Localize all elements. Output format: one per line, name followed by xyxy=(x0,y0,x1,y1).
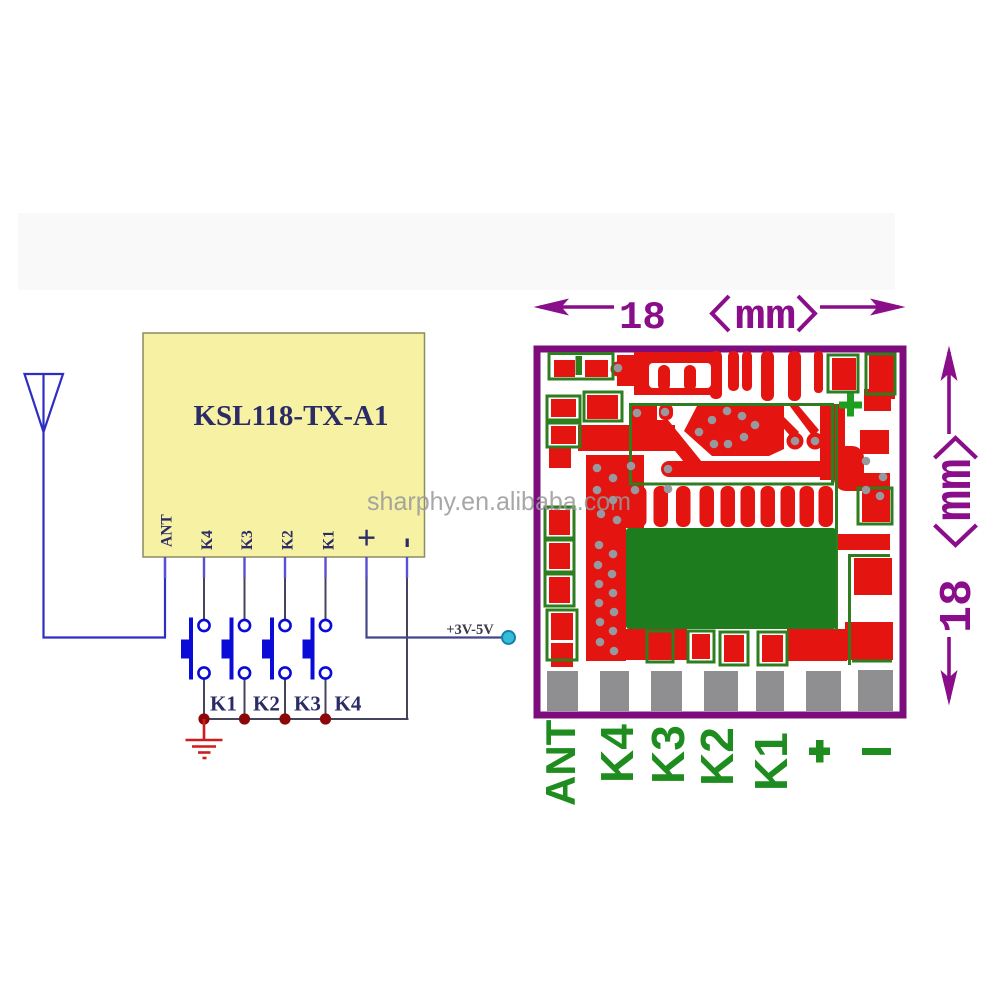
svg-text:+3V-5V: +3V-5V xyxy=(446,622,494,638)
svg-text:K1: K1 xyxy=(745,732,797,791)
svg-text:K3: K3 xyxy=(294,692,321,716)
svg-text:18: 18 xyxy=(933,579,984,633)
svg-text:KSL118-TX-A1: KSL118-TX-A1 xyxy=(194,400,389,432)
svg-text:K2: K2 xyxy=(280,530,297,550)
svg-text:K1: K1 xyxy=(321,530,338,550)
svg-text:ANT: ANT xyxy=(537,719,584,806)
svg-text:K2: K2 xyxy=(253,692,280,716)
svg-text:K4: K4 xyxy=(591,724,643,783)
svg-text:K3: K3 xyxy=(642,725,694,784)
svg-text:K2: K2 xyxy=(691,727,743,786)
svg-text:mm: mm xyxy=(927,459,986,521)
svg-text:K4: K4 xyxy=(335,692,362,716)
svg-text:K1: K1 xyxy=(210,692,237,716)
svg-text:mm: mm xyxy=(735,293,796,341)
svg-text:K3: K3 xyxy=(239,530,256,550)
svg-text:sharphy.en.alibaba.com: sharphy.en.alibaba.com xyxy=(367,486,631,516)
svg-text:K4: K4 xyxy=(199,530,216,550)
svg-text:18: 18 xyxy=(619,296,666,340)
svg-text:ANT: ANT xyxy=(159,514,176,547)
svg-text:+: + xyxy=(357,520,376,557)
